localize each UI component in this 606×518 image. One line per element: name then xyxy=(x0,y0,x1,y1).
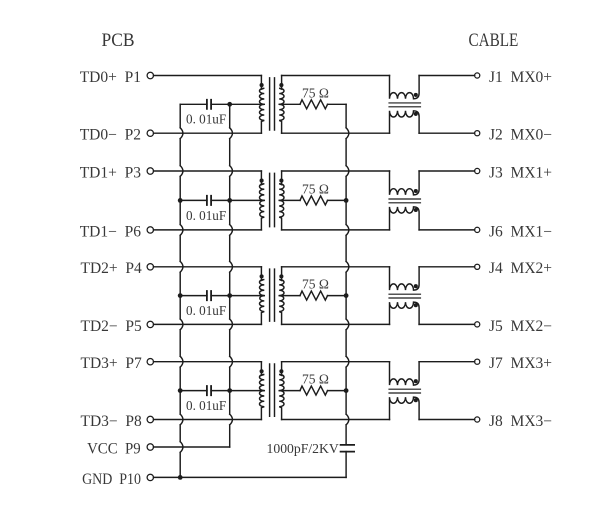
transformer T3 secondary phase dot xyxy=(279,274,283,278)
svg-text:75 Ω: 75 Ω xyxy=(302,85,329,100)
svg-text:TD0− P2: TD0− P2 xyxy=(80,127,141,144)
transformer T4 primary phase dot xyxy=(260,369,264,373)
svg-text:CABLE: CABLE xyxy=(468,30,518,51)
transformer T3 primary phase dot xyxy=(260,274,264,278)
wire cap C4 left xyxy=(180,390,207,392)
choke L1 core xyxy=(389,103,421,107)
terminal P4 xyxy=(147,264,153,270)
terminal J5 xyxy=(475,322,480,327)
choke L4 top winding xyxy=(390,362,420,385)
wire sec-bot ch1 xyxy=(282,132,390,134)
capacitor C3 plates xyxy=(207,291,211,300)
terminal J2 xyxy=(475,131,480,136)
svg-text:J8 MX3−: J8 MX3− xyxy=(489,413,552,430)
transformer T3 primary winding xyxy=(259,267,264,325)
terminal P6 xyxy=(147,227,153,233)
terminal J7 xyxy=(475,359,480,364)
wire P-bot ch3 xyxy=(154,323,262,325)
choke L3 top phase dot xyxy=(414,284,418,288)
capacitor C5 1000pF/2KV plates xyxy=(341,445,355,452)
wire center tap to resistor R1 xyxy=(279,103,300,105)
wire J-top ch4 xyxy=(419,361,475,363)
transformer T3 core xyxy=(270,269,275,321)
svg-text:0. 01uF: 0. 01uF xyxy=(186,207,227,222)
resistor R2 75ohm xyxy=(300,196,328,205)
svg-text:75 Ω: 75 Ω xyxy=(302,181,329,196)
svg-text:TD2+ P4: TD2+ P4 xyxy=(81,260,143,277)
choke L1 top winding xyxy=(390,76,420,99)
transformer T1 core xyxy=(270,78,275,130)
terminal P1 xyxy=(147,72,153,78)
svg-text:J3 MX1+: J3 MX1+ xyxy=(489,164,552,181)
VCC / center-tap bus (vertical, x=230) xyxy=(230,104,233,447)
svg-text:0. 01uF: 0. 01uF xyxy=(186,111,227,126)
wire center tap to resistor R2 xyxy=(279,199,300,201)
wire sec-bot ch2 xyxy=(282,229,390,231)
terminal P8 xyxy=(147,416,153,422)
wire C5 bottom xyxy=(345,452,347,478)
svg-text:J4 MX2+: J4 MX2+ xyxy=(489,260,552,277)
wire P-bot ch2 xyxy=(154,229,262,231)
terminal J8 xyxy=(475,417,480,422)
wire P-top ch4 xyxy=(154,361,262,363)
wire J-bot ch3 xyxy=(419,323,475,325)
choke L1 bottom winding xyxy=(390,111,420,133)
svg-text:TD1+ P3: TD1+ P3 xyxy=(80,164,142,181)
transformer T1 primary center tap wire xyxy=(230,103,265,105)
svg-text:TD3+ P7: TD3+ P7 xyxy=(81,355,143,372)
choke L3 bottom winding xyxy=(390,302,420,324)
wire resistor R4 to bus xyxy=(328,390,347,392)
choke L1 bottom phase dot xyxy=(414,112,418,116)
capacitor C1 plates xyxy=(207,100,211,109)
svg-text:1000pF/2KV: 1000pF/2KV xyxy=(267,441,339,456)
svg-text:TD3− P8: TD3− P8 xyxy=(81,413,143,430)
wire resistor R2 to bus xyxy=(328,199,347,201)
terminal P3 xyxy=(147,168,153,174)
wire J-bot ch2 xyxy=(419,229,475,231)
transformer T4 secondary phase dot xyxy=(279,369,283,373)
svg-text:J6 MX1−: J6 MX1− xyxy=(489,223,552,240)
wire cap C2 left xyxy=(180,199,207,201)
choke L4 top phase dot xyxy=(414,379,418,383)
transformer T4 primary center tap wire xyxy=(230,390,265,392)
choke L2 top winding xyxy=(390,171,420,195)
wire sec-top ch2 xyxy=(282,170,390,172)
choke L3 bottom phase dot xyxy=(414,303,418,307)
transformer T4 primary winding xyxy=(259,362,264,420)
wire cap C1 right xyxy=(211,103,230,105)
terminal P10 xyxy=(147,474,153,480)
terminal P9 xyxy=(147,444,153,450)
choke L3 top winding xyxy=(390,267,420,290)
wire cap C2 right xyxy=(211,199,230,201)
transformer T2 primary winding xyxy=(259,171,264,230)
transformer T2 core xyxy=(270,173,275,226)
wire cap C1 left xyxy=(180,103,207,105)
svg-text:J2 MX0−: J2 MX0− xyxy=(489,127,552,144)
svg-text:PCB: PCB xyxy=(102,30,135,51)
wire GND P10 xyxy=(154,476,347,478)
terminal J1 xyxy=(475,73,480,78)
wire P-bot ch4 xyxy=(154,419,262,421)
wire sec-bot ch3 xyxy=(282,323,390,325)
terminal J4 xyxy=(475,264,480,269)
transformer T2 secondary phase dot xyxy=(279,179,283,183)
wire cap C3 left xyxy=(180,295,207,297)
terminal J3 xyxy=(475,168,480,173)
svg-text:VCC P9: VCC P9 xyxy=(87,440,141,457)
wire P-top ch2 xyxy=(154,170,262,172)
wire resistor R1 to bus xyxy=(328,103,347,105)
transformer T1 secondary phase dot xyxy=(279,83,283,87)
svg-text:TD0+ P1: TD0+ P1 xyxy=(80,69,141,86)
wire center tap to resistor R4 xyxy=(279,390,300,392)
wire resistor R3 to bus xyxy=(328,295,347,297)
choke L2 top phase dot xyxy=(414,189,418,193)
choke L2 core xyxy=(389,199,421,203)
svg-text:75 Ω: 75 Ω xyxy=(302,277,329,292)
wire sec-top ch1 xyxy=(282,75,390,77)
svg-text:J1 MX0+: J1 MX0+ xyxy=(489,69,552,86)
wire VCC P9 xyxy=(154,446,230,448)
choke L4 bottom winding xyxy=(390,397,420,419)
wire J-top ch3 xyxy=(419,266,475,268)
wire P-bot ch1 xyxy=(154,132,262,134)
resistor R4 75ohm xyxy=(300,386,328,395)
choke L2 bottom winding xyxy=(390,207,420,230)
wire cap C3 right xyxy=(211,295,230,297)
choke L2 bottom phase dot xyxy=(414,208,418,212)
transformer T2 primary center tap wire xyxy=(230,199,265,201)
capacitor C2 plates xyxy=(207,196,211,205)
wire cap C4 right xyxy=(211,390,230,392)
resistor R1 75ohm xyxy=(300,100,328,109)
capacitor C4 plates xyxy=(207,386,211,395)
transformer T1 primary winding xyxy=(259,76,264,134)
svg-text:J5 MX2−: J5 MX2− xyxy=(489,318,552,335)
resistor R3 75ohm xyxy=(300,291,328,300)
transformer T4 secondary winding xyxy=(279,362,284,420)
svg-text:J7 MX3+: J7 MX3+ xyxy=(489,355,552,372)
terminal J6 xyxy=(475,227,480,232)
choke L4 core xyxy=(389,389,421,393)
transformer T3 primary center tap wire xyxy=(230,295,265,297)
svg-text:75 Ω: 75 Ω xyxy=(302,372,329,387)
svg-text:0. 01uF: 0. 01uF xyxy=(186,303,227,318)
wire J-top ch2 xyxy=(419,170,475,172)
wire sec-top ch3 xyxy=(282,266,390,268)
transformer T1 secondary winding xyxy=(279,76,284,134)
transformer T2 primary phase dot xyxy=(260,179,264,183)
terminal P7 xyxy=(147,359,153,365)
wire P-top ch1 xyxy=(154,75,262,77)
svg-text:TD2− P5: TD2− P5 xyxy=(81,318,143,335)
choke L4 bottom phase dot xyxy=(414,398,418,402)
termination bus (vertical, x=346) xyxy=(346,104,349,444)
choke L3 core xyxy=(389,294,421,298)
GND bus (vertical, x=180) xyxy=(180,104,183,477)
transformer T3 secondary winding xyxy=(279,267,284,325)
wire sec-bot ch4 xyxy=(282,419,390,421)
terminal P2 xyxy=(147,130,153,136)
wire J-bot ch1 xyxy=(419,132,475,134)
wire J-top ch1 xyxy=(419,75,475,77)
choke L1 top phase dot xyxy=(414,93,418,97)
wire J-bot ch4 xyxy=(419,419,475,421)
wire center tap to resistor R3 xyxy=(279,295,300,297)
svg-text:GND P10: GND P10 xyxy=(82,471,141,488)
svg-text:TD1− P6: TD1− P6 xyxy=(80,223,142,240)
wire sec-top ch4 xyxy=(282,361,390,363)
svg-text:0. 01uF: 0. 01uF xyxy=(186,398,227,413)
terminal P5 xyxy=(147,321,153,327)
wire P-top ch3 xyxy=(154,266,262,268)
transformer T2 secondary winding xyxy=(279,171,284,230)
transformer T1 primary phase dot xyxy=(260,83,264,87)
transformer T4 core xyxy=(270,364,275,416)
